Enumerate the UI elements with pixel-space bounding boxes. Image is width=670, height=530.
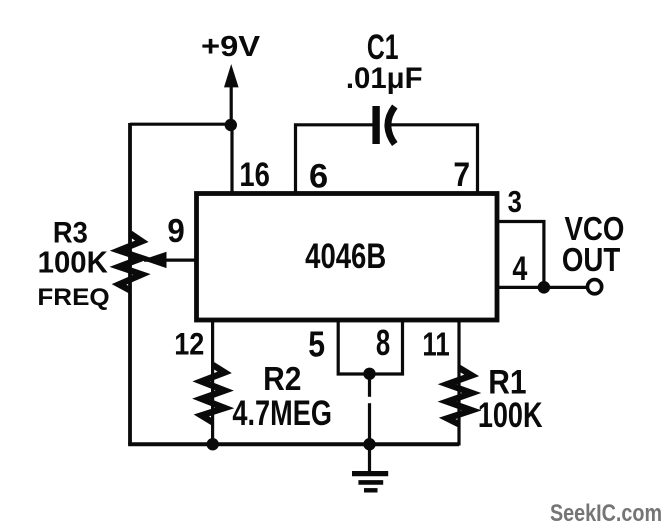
svg-text:FREQ: FREQ <box>37 284 109 311</box>
svg-text:.01μF: .01μF <box>346 62 423 95</box>
svg-text:5: 5 <box>308 325 325 365</box>
svg-text:R3: R3 <box>53 216 88 249</box>
svg-text:8: 8 <box>376 321 390 363</box>
svg-text:SeekIC.com: SeekIC.com <box>550 499 662 526</box>
svg-text:9: 9 <box>167 212 184 249</box>
svg-text:100K: 100K <box>38 246 109 279</box>
svg-text:3: 3 <box>508 185 522 220</box>
svg-text:11: 11 <box>422 326 449 363</box>
svg-text:6: 6 <box>309 158 328 196</box>
svg-text:4.7MEG: 4.7MEG <box>232 392 332 432</box>
svg-text:4: 4 <box>512 249 528 288</box>
svg-text:7: 7 <box>453 155 470 193</box>
svg-text:+9V: +9V <box>201 30 261 63</box>
svg-text:4046B: 4046B <box>305 235 386 275</box>
svg-text:OUT: OUT <box>562 242 621 279</box>
svg-text:100K: 100K <box>478 396 543 435</box>
svg-text:16: 16 <box>239 155 269 194</box>
svg-text:12: 12 <box>174 327 204 363</box>
